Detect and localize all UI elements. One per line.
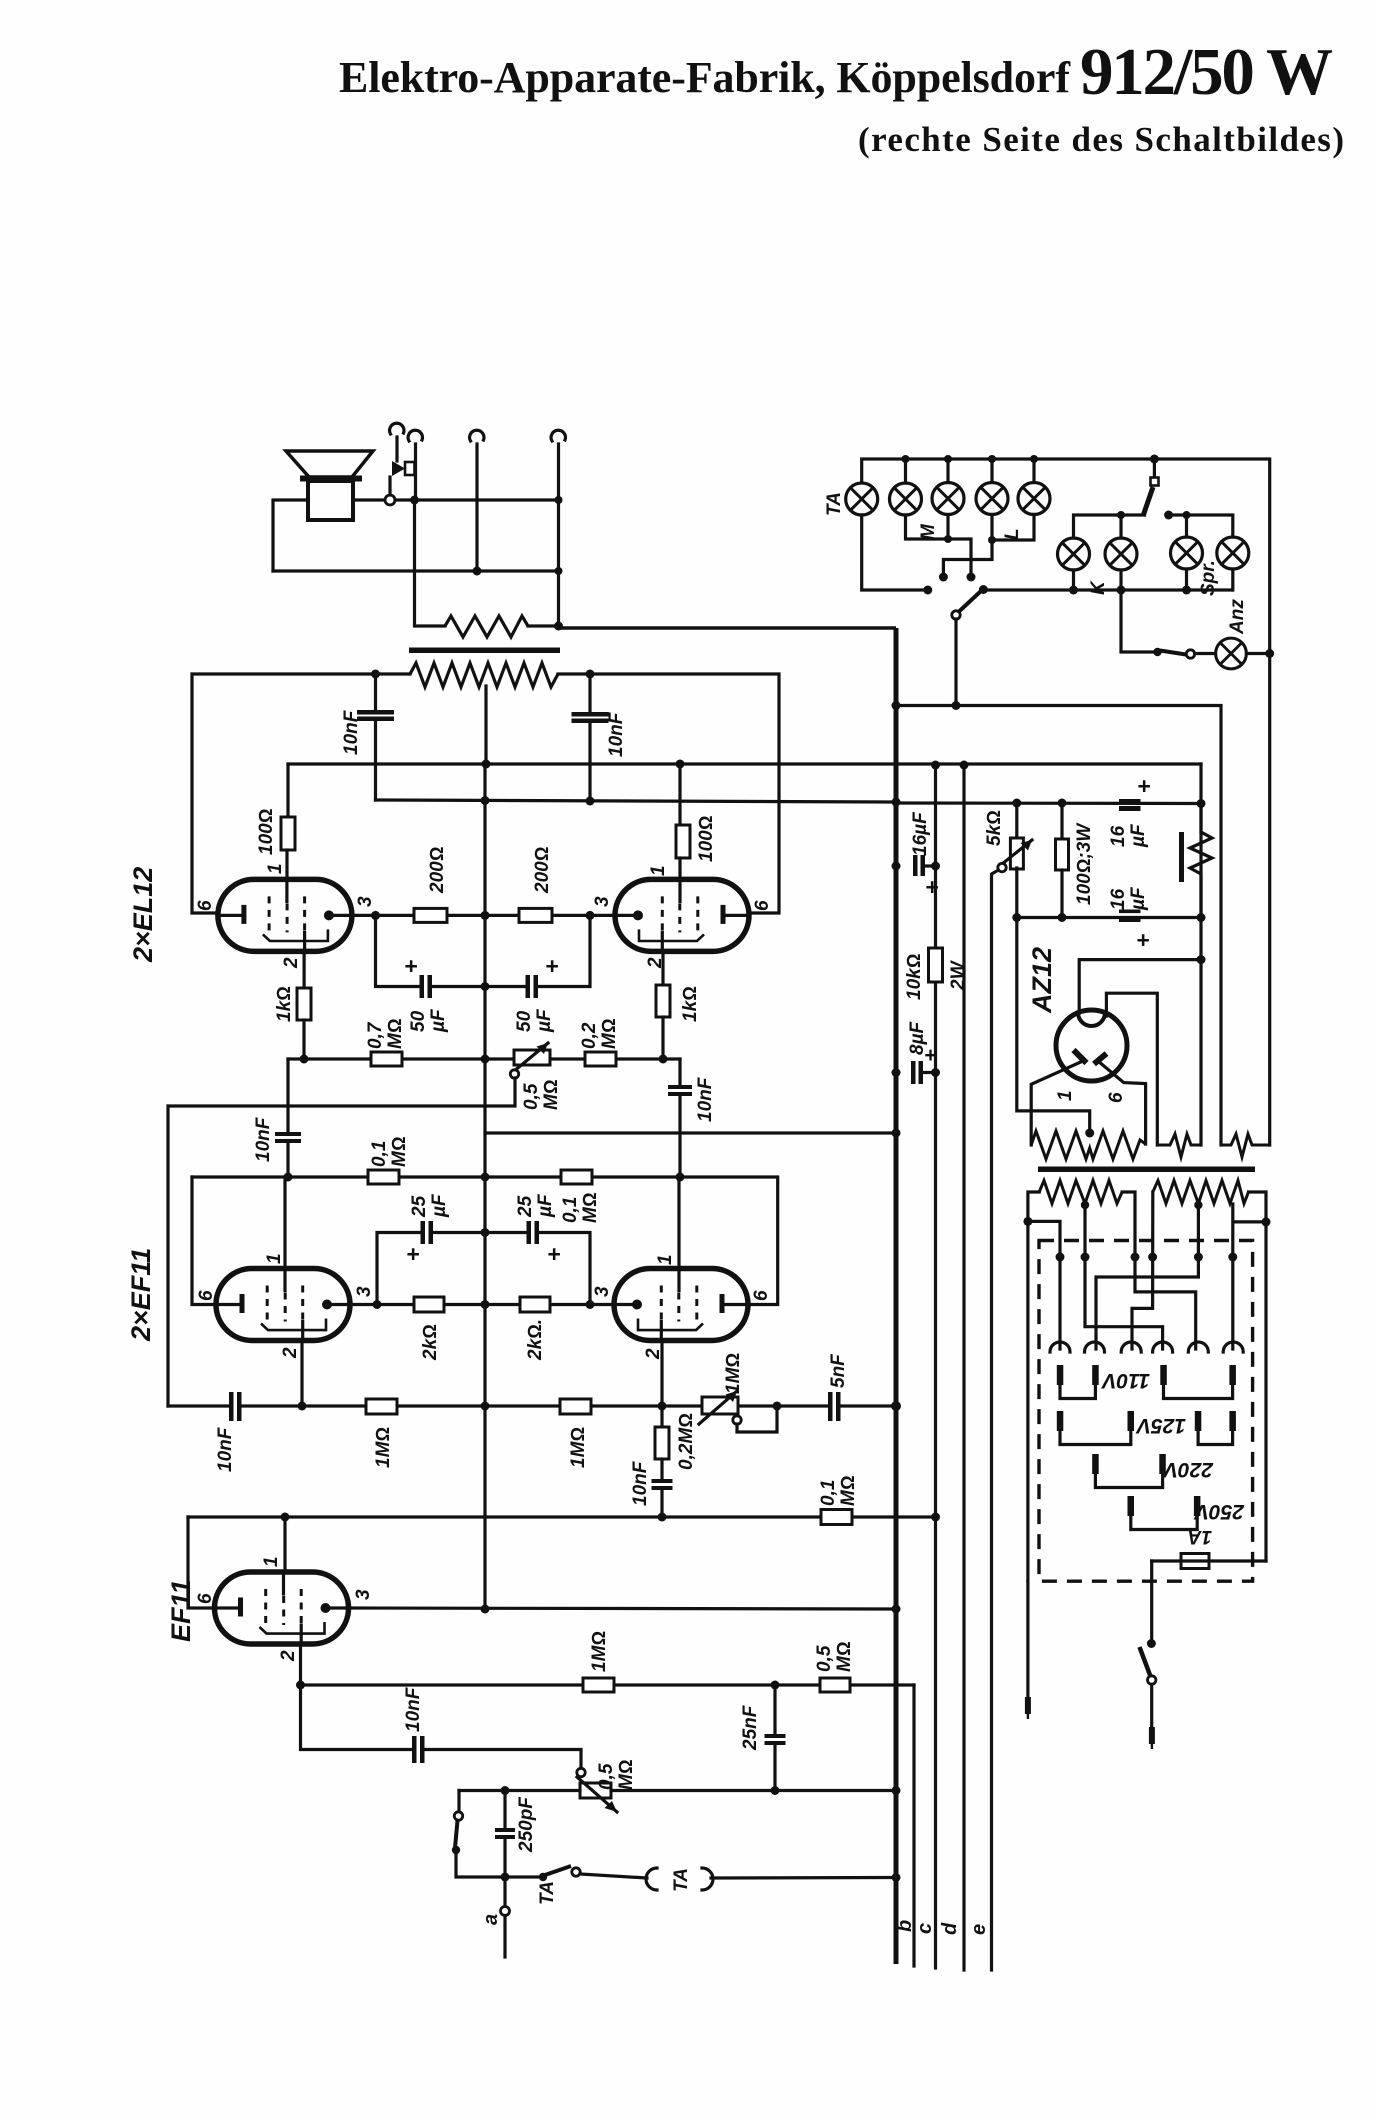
op EF11 right tube	[614, 1269, 748, 1341]
wire K1 bottom	[1072, 570, 1075, 590]
node bus b 16uF	[892, 862, 901, 871]
node 16uF at bus d	[931, 862, 940, 871]
wire plate feed row y=1517	[188, 1515, 936, 1518]
node row1406 centre	[481, 1402, 490, 1411]
250V link	[1131, 1514, 1197, 1530]
svg-text:(rechte Seite des Schaltbildes: (rechte Seite des Schaltbildes)	[858, 120, 1344, 159]
svg-text:0,7: 0,7	[365, 1021, 386, 1049]
capacitor 10nF chain bottom	[660, 1459, 663, 1478]
wire row y705	[896, 706, 1221, 1146]
svg-text:10nF: 10nF	[606, 711, 627, 757]
svg-text:3: 3	[592, 896, 613, 907]
svg-text:2kΩ: 2kΩ	[420, 1324, 441, 1361]
svg-text:µF: µF	[1128, 886, 1149, 911]
node row915 left	[371, 911, 380, 920]
bus b (thick earth rail)	[894, 628, 899, 1964]
node tap right primary	[1194, 1201, 1202, 1209]
wire anode 1 lead	[1031, 1061, 1084, 1146]
svg-text:0,2MΩ: 0,2MΩ	[676, 1413, 697, 1470]
wire jack line y=500	[395, 498, 559, 501]
svg-text:µF: µF	[429, 1193, 450, 1218]
lamp L2	[1018, 483, 1050, 515]
svg-text:10kΩ: 10kΩ	[904, 954, 925, 1000]
capacitor 10nF series feedback	[168, 1404, 228, 1407]
capacitor 25nF	[773, 1685, 776, 1733]
Anz switch throw	[1186, 650, 1194, 658]
node jack/primary junction	[410, 496, 419, 505]
wire pin2 EF11B	[299, 1644, 302, 1685]
node 25uF row centre	[481, 1228, 490, 1237]
node row800 at bus b	[892, 798, 901, 807]
HT winding	[1031, 1131, 1145, 1159]
wire wave switch to y705	[954, 619, 957, 706]
node bus b y=705	[892, 701, 901, 710]
node pot bottom row	[1012, 913, 1021, 922]
svg-text:2×EF11: 2×EF11	[126, 1248, 156, 1342]
node grid row centre	[481, 1173, 490, 1182]
svg-text:100Ω;3W: 100Ω;3W	[1074, 822, 1095, 905]
svg-text:220V: 220V	[1162, 1458, 1214, 1481]
filament winding A	[1157, 1134, 1199, 1157]
node sel2	[1081, 1253, 1090, 1262]
capacitor 5nF	[779, 1404, 827, 1407]
lamp M1	[890, 483, 922, 515]
speaker horn	[286, 451, 373, 477]
svg-text:K: K	[1088, 580, 1109, 595]
resistor 10k Ohm 2W	[929, 948, 943, 982]
node sel1	[1056, 1253, 1065, 1262]
node hook4 top junction	[555, 496, 563, 504]
potentiometer 0,5M Ohm volume	[580, 1783, 611, 1798]
wire primary right end	[1249, 1192, 1267, 1561]
wire selector line 5 (tap right primary)	[1096, 1204, 1198, 1349]
node y705 switch	[952, 701, 961, 710]
svg-text:100Ω: 100Ω	[696, 816, 717, 862]
svg-text:TA: TA	[824, 492, 845, 516]
svg-text:10nF: 10nF	[630, 1460, 651, 1506]
hum resistor with slider bar	[1179, 832, 1184, 882]
svg-text:100Ω: 100Ω	[256, 809, 277, 855]
pot 0,5M wiper terminal bottom	[577, 1768, 585, 1776]
wire pin6 EF11B drop	[188, 1517, 214, 1608]
pilot winding B	[1221, 1134, 1270, 1157]
wire speaker left loop	[273, 500, 308, 571]
wire ground row y=800	[376, 800, 897, 802]
wire pot bottom down	[1017, 868, 1090, 1130]
wire Spr1 bottom	[1185, 569, 1188, 590]
node snubber cap left top	[371, 670, 380, 679]
wire anode row y=674 left	[192, 674, 410, 913]
svg-text:MΩ: MΩ	[385, 1019, 406, 1049]
wire selector left lead with taper	[1026, 1581, 1029, 1697]
svg-text:+: +	[924, 1044, 936, 1067]
node row1790 at bus b	[892, 1786, 901, 1795]
wire to Anz lamp	[1195, 652, 1216, 655]
wire K2 bottom	[1119, 570, 1122, 590]
contact L	[939, 573, 948, 582]
output transformer primary winding	[445, 616, 528, 637]
resistor 200 Ohm right	[519, 908, 552, 922]
node 50uF row centre	[481, 982, 490, 991]
svg-text:0,2: 0,2	[579, 1022, 600, 1049]
svg-text:1MΩ: 1MΩ	[568, 1427, 589, 1468]
svg-text:125V: 125V	[1135, 1414, 1186, 1437]
svg-text:6: 6	[195, 1593, 216, 1604]
node bus b 8uF	[892, 1068, 901, 1077]
wire centre column to cathode row	[483, 1133, 486, 1305]
wire feedback from pot wiper	[168, 1078, 515, 1406]
potentiometer 1M Ohm	[702, 1397, 738, 1414]
node row1685 25nF	[771, 1681, 780, 1690]
svg-text:L: L	[1002, 528, 1023, 540]
wire volume row y=1790	[459, 1789, 896, 1792]
svg-text:Spr.: Spr.	[1198, 560, 1219, 596]
svg-text:EF11: EF11	[166, 1579, 196, 1642]
wire selector line 4	[1132, 1192, 1153, 1349]
wire grid leak row y=1406	[302, 1404, 779, 1407]
wire selector line 6	[1233, 1204, 1266, 1349]
node grid row right	[676, 1173, 685, 1182]
node row915 right	[586, 911, 595, 920]
svg-text:6: 6	[751, 1290, 772, 1301]
node primary left	[1023, 1217, 1032, 1226]
svg-text:2kΩ.: 2kΩ.	[525, 1319, 546, 1361]
output transformer secondary winding	[410, 663, 558, 687]
250V row bars	[1128, 1496, 1201, 1516]
fuse 1A	[1152, 1559, 1266, 1562]
capacitor 16uF upper	[1015, 803, 1018, 838]
jack triangle	[392, 461, 405, 476]
svg-text:MΩ: MΩ	[616, 1760, 637, 1790]
wire fuse left down	[1150, 1561, 1153, 1644]
svg-text:MΩ: MΩ	[838, 1476, 859, 1506]
svg-text:10nF: 10nF	[215, 1426, 236, 1472]
svg-text:2W: 2W	[948, 959, 969, 991]
op EF11 bottom tube	[215, 1572, 349, 1644]
primary winding right	[1153, 1181, 1249, 1204]
hook terminal 4	[551, 430, 565, 441]
capacitor 25uF right	[485, 1231, 526, 1234]
pickup jack TA right arc	[702, 1868, 713, 1890]
svg-text:TA: TA	[537, 1881, 558, 1905]
125V links	[1060, 1429, 1131, 1445]
svg-text:1: 1	[264, 1253, 285, 1264]
resistor 0,7M Ohm	[371, 1052, 402, 1066]
svg-text:10nF: 10nF	[403, 1686, 424, 1732]
svg-text:0,1: 0,1	[818, 1480, 839, 1506]
svg-text:250V: 250V	[1193, 1500, 1245, 1523]
node cath row centre	[481, 1300, 490, 1309]
resistor 100 Ohm left screen	[286, 764, 289, 817]
wire L group join	[992, 515, 1034, 541]
node row1517 chain	[658, 1513, 667, 1522]
svg-text:+: +	[1137, 773, 1150, 799]
node cath row left	[373, 1300, 382, 1309]
capacitor 10nF right chain	[668, 1085, 692, 1089]
svg-text:+: +	[406, 1241, 419, 1267]
bus d	[934, 765, 937, 1968]
wire Spr2 bottom	[1231, 569, 1234, 590]
svg-text:16: 16	[1108, 888, 1129, 910]
op EL12 left tube	[218, 879, 352, 951]
svg-text:µF: µF	[534, 1008, 555, 1033]
jack terminal circle	[385, 495, 395, 505]
wire grid row y=1177	[192, 1177, 778, 1305]
switch K square terminal	[1153, 459, 1156, 477]
svg-text:3: 3	[354, 1286, 375, 1297]
wire y=571 return	[273, 569, 559, 572]
wire pin2 EF11R	[660, 1341, 663, 1407]
110V links	[1060, 1383, 1095, 1399]
node row800 right cap	[586, 797, 595, 806]
node rail L4	[988, 455, 996, 463]
svg-text:Anz: Anz	[1227, 599, 1248, 635]
svg-text:1MΩ: 1MΩ	[589, 1631, 610, 1672]
wire cathode row y=1304	[350, 1303, 614, 1306]
node switch bottom	[452, 1846, 460, 1854]
svg-text:2: 2	[280, 1347, 301, 1359]
mains switch lever	[1140, 1647, 1151, 1675]
svg-text:2×EL12: 2×EL12	[128, 867, 158, 963]
node L join	[988, 536, 996, 544]
wire hook4 stem down to primary right	[557, 444, 560, 626]
switch contact circle	[454, 1812, 462, 1820]
110V row bars	[1057, 1365, 1236, 1385]
resistor 1M Ohm bottom	[583, 1678, 614, 1692]
wire lamp return line right	[983, 588, 1231, 591]
wire primary left feed	[415, 500, 446, 626]
capacitor 10nF snubber right	[588, 674, 591, 711]
node 5k top	[1012, 799, 1021, 808]
node primary right	[1262, 1217, 1271, 1226]
node Spr rail	[1183, 511, 1191, 519]
lamp rail top	[862, 459, 1270, 654]
svg-text:25: 25	[409, 1195, 430, 1218]
wire cathode row y=915	[352, 914, 615, 917]
svg-text:MΩ: MΩ	[389, 1137, 410, 1167]
speaker baffle bar	[300, 476, 362, 482]
svg-text:10nF: 10nF	[341, 709, 362, 755]
wire 25uF row left	[377, 1233, 420, 1305]
svg-text:MΩ: MΩ	[580, 1193, 601, 1223]
node pin2 EF11R row	[658, 1402, 667, 1411]
resistor 2k Ohm left	[414, 1297, 444, 1312]
node screen right on row764	[676, 760, 685, 769]
wire primary left end	[1028, 1192, 1039, 1581]
resistor 100 Ohm 3W	[1060, 803, 1063, 839]
resistor 1k Ohm left cathode	[303, 951, 306, 988]
pot 5k wiper	[998, 863, 1006, 871]
wire pin2 down to 10nF series	[301, 1685, 412, 1750]
resistor 1k Ohm right cathode	[661, 951, 664, 985]
svg-text:16: 16	[1108, 825, 1129, 847]
node row917 right	[1197, 913, 1206, 922]
terminal a circle	[501, 1907, 510, 1916]
node grid row left	[284, 1173, 293, 1182]
node bus d top	[931, 761, 940, 770]
pot wiper terminal	[510, 1070, 518, 1078]
lamp Anz	[1216, 638, 1247, 669]
node right rail Anz	[1265, 649, 1274, 658]
potentiometer 0,5M Ohm bias	[514, 1050, 550, 1065]
node cath row right	[586, 1300, 595, 1309]
wire centre column to plate row	[483, 1305, 486, 1610]
hook terminal 2	[408, 430, 422, 441]
wire right rail down to winding B	[1268, 654, 1271, 1146]
wire switch to row1877	[456, 1850, 541, 1877]
capacitor 25uF left	[421, 1221, 426, 1244]
220V row bars	[1092, 1454, 1166, 1474]
potentiometer 5k Ohm	[1010, 838, 1023, 869]
svg-text:25nF: 25nF	[740, 1704, 761, 1751]
lamp Spr1	[1171, 537, 1203, 569]
wire bias row to 10nF right chain	[678, 1059, 681, 1084]
hook terminal 1	[390, 423, 404, 434]
svg-text:µF: µF	[535, 1193, 556, 1218]
svg-text:6: 6	[752, 900, 773, 911]
lamp M2	[932, 483, 964, 515]
wire pin1 EF11R	[677, 1177, 680, 1269]
svg-text:µF: µF	[428, 1008, 449, 1033]
node cathode tap	[1197, 955, 1206, 964]
node row1877 at bus b	[892, 1873, 901, 1882]
node hook3 on y571	[473, 567, 482, 576]
wire pin6 EF11L drop	[192, 1177, 216, 1305]
wire M group join	[906, 515, 972, 575]
wire cathode row y=1609	[349, 1608, 896, 1609]
svg-text:3: 3	[353, 1589, 374, 1600]
op EL12 right tube	[615, 879, 749, 951]
node hook4 on y571	[555, 567, 563, 575]
node row1790 250pF	[501, 1786, 510, 1795]
svg-text:5nF: 5nF	[828, 1353, 849, 1388]
node row1517 pin1	[281, 1513, 290, 1522]
wire K2 to Anz switch	[1121, 590, 1156, 652]
node row1877 250pF	[501, 1873, 510, 1882]
wire secondary centre tap	[484, 686, 487, 764]
lamp L1	[976, 483, 1008, 515]
node rail switch feed	[1150, 455, 1159, 464]
wire bias row y=1059	[288, 1057, 680, 1060]
node pin2 EF11L row	[298, 1402, 307, 1411]
mains transformer core	[1038, 1167, 1255, 1173]
node sel5	[1194, 1253, 1203, 1262]
svg-text:250pF: 250pF	[516, 1796, 537, 1853]
tube AZ12 envelope	[1056, 1010, 1127, 1081]
svg-text:6: 6	[1106, 1092, 1127, 1103]
lamp TA	[846, 483, 878, 515]
svg-text:c: c	[914, 1923, 936, 1934]
lamp K1	[1058, 538, 1090, 570]
svg-text:0,1: 0,1	[369, 1141, 390, 1167]
svg-text:2: 2	[278, 1650, 299, 1662]
node pin2 EF11B row	[296, 1681, 305, 1690]
mains switch throw	[1148, 1676, 1156, 1684]
wire pin1 EF11B	[283, 1517, 286, 1573]
node rail L3	[944, 455, 952, 463]
AZ12 top nipple	[1078, 1013, 1105, 1027]
node row1609 centre column	[481, 1605, 490, 1614]
capacitor 10nF snubber left	[374, 674, 377, 709]
node bias right	[659, 1055, 668, 1064]
node sel6	[1228, 1253, 1237, 1262]
220V link	[1095, 1472, 1162, 1488]
svg-text:MΩ: MΩ	[599, 1019, 620, 1049]
svg-text:110V: 110V	[1101, 1369, 1150, 1392]
capacitor 50uF left	[420, 975, 425, 998]
wire HT+ feed down right	[1199, 764, 1202, 1145]
wire speaker right to jack terminal	[353, 498, 385, 501]
node HT centre tap	[1085, 1129, 1094, 1138]
wire jack to bus b	[711, 1876, 896, 1880]
svg-text:0,5: 0,5	[521, 1083, 542, 1110]
capacitor 16uF bus	[913, 855, 918, 876]
AZ12 anode left	[1074, 1050, 1087, 1063]
svg-text:1kΩ: 1kΩ	[274, 986, 295, 1022]
node centre tap on row764	[482, 760, 491, 769]
node contact stub TA line	[923, 586, 932, 595]
svg-text:MΩ: MΩ	[834, 1642, 855, 1672]
resistor 0,2M Ohm chain	[660, 1406, 663, 1427]
wire selector line 2 (tap left primary)	[1085, 1204, 1163, 1349]
contact M	[967, 573, 976, 582]
contact Spr stub	[1164, 511, 1173, 520]
svg-text:6: 6	[196, 1290, 217, 1301]
svg-text:1kΩ: 1kΩ	[680, 986, 701, 1022]
svg-text:3: 3	[355, 896, 376, 907]
AZ12 anode right	[1094, 1054, 1107, 1065]
125V row bars	[1057, 1411, 1236, 1431]
Anz switch lever	[1160, 651, 1186, 655]
svg-text:e: e	[968, 1924, 990, 1935]
wire bus c from row1685	[912, 1685, 915, 1966]
node mains switch top	[1147, 1639, 1156, 1648]
node row1790 25nF	[771, 1786, 780, 1795]
svg-text:+: +	[925, 874, 938, 900]
node row1517 at bus d	[931, 1513, 940, 1522]
wire row y=1133 to bus b	[485, 1058, 896, 1133]
svg-text:10nF: 10nF	[695, 1076, 716, 1122]
capacitor 250pF	[503, 1791, 506, 1828]
node row1609 at bus b	[892, 1605, 901, 1614]
svg-text:25: 25	[515, 1195, 536, 1218]
svg-text:200Ω: 200Ω	[532, 847, 553, 894]
resistor 0,1M Ohm plate	[821, 1510, 852, 1525]
resistor 0,1M Ohm left	[368, 1170, 399, 1184]
svg-text:50: 50	[408, 1010, 429, 1032]
svg-text:3: 3	[592, 1286, 613, 1297]
svg-text:5kΩ: 5kΩ	[984, 810, 1005, 846]
svg-text:1: 1	[1055, 1090, 1076, 1101]
output transformer core	[409, 648, 560, 654]
svg-text:Elektro-Apparate-Fabrik, Köppe: Elektro-Apparate-Fabrik, Köppelsdorf	[339, 53, 1071, 102]
svg-text:2: 2	[281, 957, 302, 969]
resistor 0,1M Ohm right	[561, 1170, 592, 1184]
node sel3	[1131, 1253, 1140, 1262]
wire pin1 EF11L	[283, 1177, 286, 1269]
primary winding left	[1039, 1181, 1122, 1204]
svg-text:1: 1	[265, 863, 286, 874]
Anz switch pole	[1153, 648, 1161, 656]
svg-text:1MΩ: 1MΩ	[373, 1427, 394, 1468]
wire 5k wiper down	[992, 870, 999, 1970]
wire Spr rail	[1169, 515, 1233, 537]
resistor 200 Ohm left	[414, 908, 447, 922]
switch K lever	[1143, 487, 1153, 516]
switch TA pole	[539, 1873, 547, 1881]
switch TA lever	[545, 1866, 571, 1875]
selector socket arcs	[1050, 1342, 1070, 1352]
